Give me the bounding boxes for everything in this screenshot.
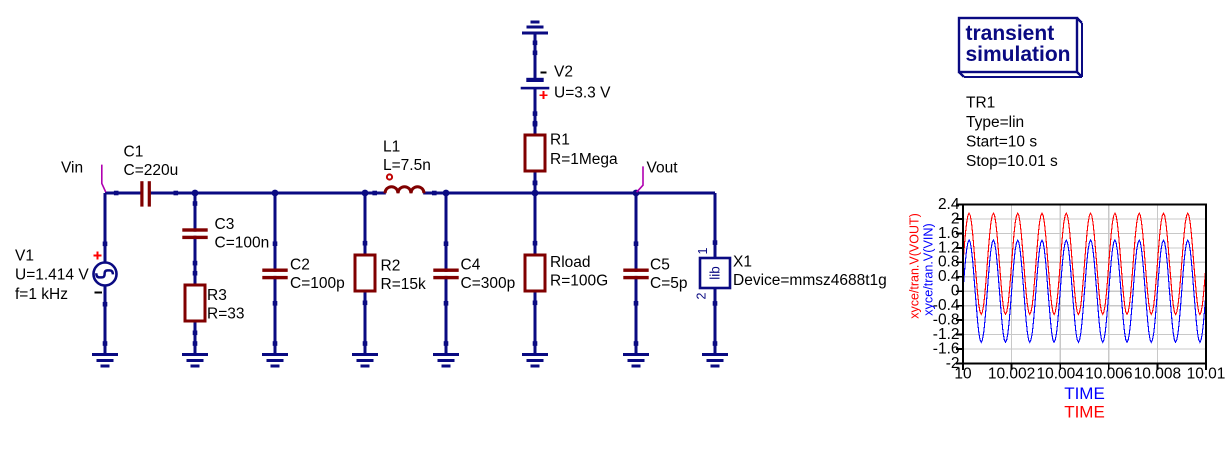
svg-text:R2: R2 — [381, 258, 401, 275]
svg-text:R=100G: R=100G — [550, 273, 608, 290]
svg-text:Vout: Vout — [647, 159, 679, 176]
svg-text:10.004: 10.004 — [1036, 366, 1084, 383]
svg-text:R=1Mega: R=1Mega — [550, 151, 618, 168]
svg-text:TIME: TIME — [1064, 384, 1105, 403]
svg-text:U=1.414 V: U=1.414 V — [15, 266, 89, 283]
svg-text:R1: R1 — [550, 132, 570, 149]
svg-text:L=7.5n: L=7.5n — [383, 157, 431, 174]
svg-text:transient: transient — [966, 22, 1055, 45]
svg-text:V2: V2 — [554, 64, 573, 81]
svg-text:TIME: TIME — [1064, 402, 1105, 421]
svg-text:L1: L1 — [383, 138, 400, 155]
svg-text:1: 1 — [696, 247, 710, 254]
svg-text:xyce/tran.V(VOUT): xyce/tran.V(VOUT) — [908, 213, 922, 319]
svg-text:R=15k: R=15k — [381, 276, 426, 293]
svg-text:simulation: simulation — [966, 43, 1071, 66]
svg-text:10.002: 10.002 — [988, 366, 1035, 383]
svg-text:10: 10 — [954, 366, 972, 383]
svg-text:R3: R3 — [207, 287, 227, 304]
svg-text:10.008: 10.008 — [1134, 366, 1181, 383]
svg-text:R=33: R=33 — [207, 306, 245, 323]
svg-text:C=100n: C=100n — [215, 235, 270, 252]
svg-text:TR1: TR1 — [966, 95, 995, 112]
svg-text:C5: C5 — [650, 257, 670, 274]
svg-text:Vin: Vin — [61, 159, 83, 176]
svg-text:Type=lin: Type=lin — [966, 114, 1024, 131]
svg-text:Device=mmsz4688t1g: Device=mmsz4688t1g — [733, 272, 887, 289]
svg-text:Stop=10.01 s: Stop=10.01 s — [966, 153, 1058, 170]
svg-text:C2: C2 — [290, 257, 310, 274]
svg-text:10.006: 10.006 — [1085, 366, 1132, 383]
svg-text:C=300p: C=300p — [461, 275, 516, 292]
svg-text:lib: lib — [708, 266, 723, 280]
svg-text:U=3.3 V: U=3.3 V — [554, 85, 611, 102]
svg-text:2: 2 — [694, 292, 708, 299]
svg-text:f=1 kHz: f=1 kHz — [15, 286, 68, 303]
svg-text:C=5p: C=5p — [650, 275, 688, 292]
svg-text:C1: C1 — [124, 143, 144, 160]
svg-text:Rload: Rload — [550, 254, 591, 271]
svg-text:C=220u: C=220u — [124, 162, 179, 179]
svg-text:10.01: 10.01 — [1187, 366, 1226, 383]
svg-text:X1: X1 — [733, 254, 752, 271]
svg-text:Start=10 s: Start=10 s — [966, 134, 1037, 151]
svg-text:C3: C3 — [215, 216, 235, 233]
svg-text:V1: V1 — [15, 248, 34, 265]
svg-text:C4: C4 — [461, 257, 481, 274]
svg-text:xyce/tran.V(VIN): xyce/tran.V(VIN) — [921, 223, 935, 315]
svg-text:C=100p: C=100p — [290, 275, 345, 292]
